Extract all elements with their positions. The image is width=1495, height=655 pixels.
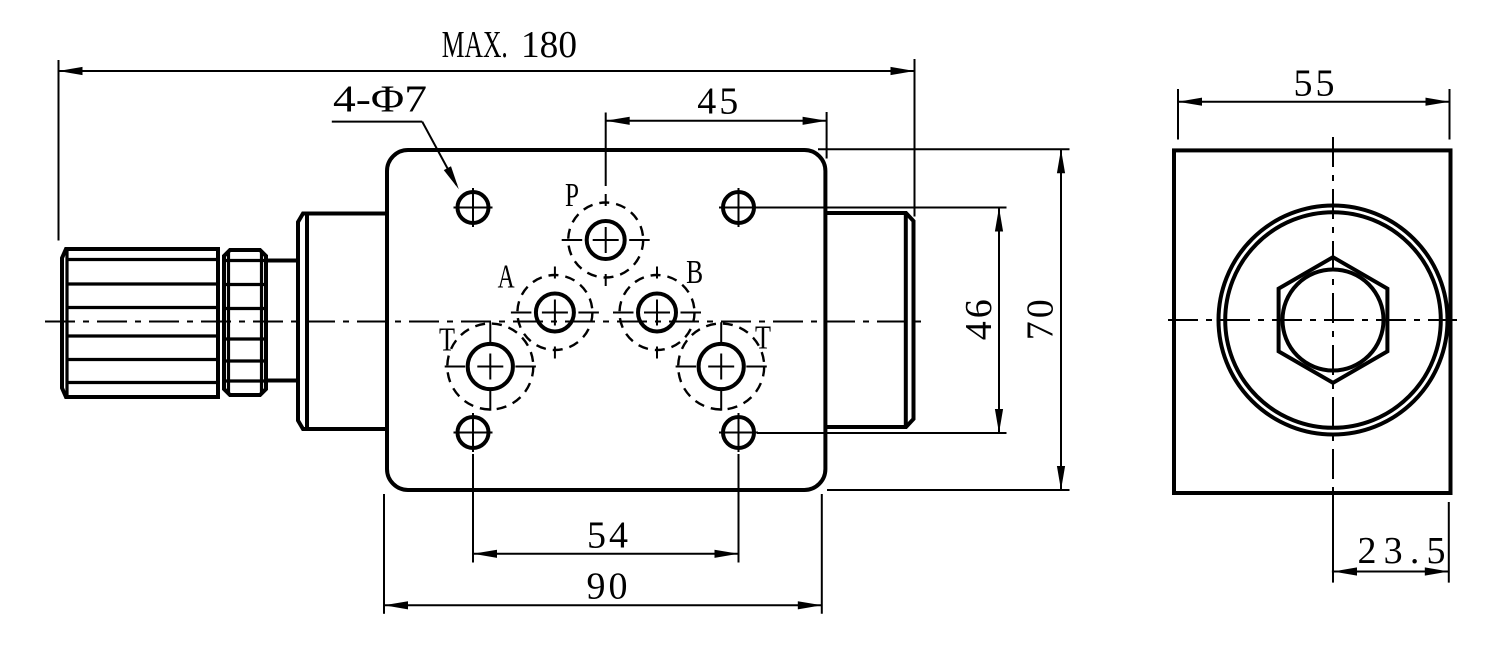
right view body rect (1174, 150, 1451, 493)
inner rim circle (1225, 212, 1441, 428)
right protrusion (825, 213, 914, 427)
bolt hole top-right (719, 188, 758, 227)
stem (266, 261, 298, 381)
port P (562, 194, 650, 286)
port T right (676, 322, 767, 410)
main centerline left view (45, 321, 921, 323)
right view centerline vertical (1332, 137, 1334, 573)
collar ring (224, 250, 266, 395)
svg-text:23.5: 23.5 (1358, 530, 1446, 572)
bolt hole top-left (454, 188, 493, 227)
svg-text:P: P (565, 177, 579, 214)
socket circle (1283, 270, 1384, 371)
hex socket (1279, 257, 1388, 383)
svg-text:T: T (439, 322, 455, 359)
collar knurl lines (224, 261, 266, 382)
outer circle (1219, 206, 1448, 435)
bolt hole bottom-right (719, 413, 758, 452)
right view centerline horizontal (1168, 319, 1457, 321)
main valve block (387, 150, 825, 490)
adjuster housing (298, 214, 389, 430)
svg-text:180: 180 (521, 24, 577, 66)
port B (613, 267, 701, 359)
dimension 90 (384, 494, 822, 614)
dimension 23.5 (1332, 495, 1449, 583)
dimension 70 (818, 149, 1070, 490)
port A (511, 267, 599, 359)
dimension MAX.180 (59, 24, 915, 241)
svg-text:MAX.: MAX. (442, 24, 508, 66)
svg-text:A: A (498, 259, 515, 296)
dimension 55 (1178, 63, 1450, 140)
dimension 45 (606, 81, 827, 187)
knob body (62, 249, 218, 397)
port T left (445, 322, 536, 410)
svg-text:B: B (686, 254, 703, 291)
dimension 46 (757, 208, 1007, 434)
svg-text:T: T (755, 319, 771, 356)
svg-text:4-Φ7: 4-Φ7 (333, 79, 427, 121)
bolt hole bottom-left (454, 413, 493, 452)
dimension 54 (473, 454, 739, 563)
leader 4-phi7 (332, 79, 463, 192)
knob knurl lines (66, 260, 218, 383)
